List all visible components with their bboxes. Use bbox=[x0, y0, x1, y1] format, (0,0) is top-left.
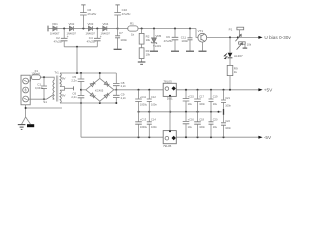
svg-text:R2: R2 bbox=[146, 35, 150, 39]
node junction AC bottom at bridge bbox=[99, 102, 101, 104]
node junction bridge top bbox=[99, 72, 101, 74]
zener VD5 TL431 bbox=[151, 29, 156, 51]
svg-text:+C16: +C16 bbox=[188, 118, 195, 122]
diode VD4 bbox=[103, 26, 118, 31]
transformer Tr1 core bbox=[56, 76, 57, 102]
resistor R1 bbox=[128, 26, 138, 31]
svg-text:47u25v: 47u25v bbox=[87, 40, 96, 44]
svg-text:C14: C14 bbox=[151, 118, 156, 122]
wire center tap bbox=[60, 86, 74, 90]
wire chain seg 4 bbox=[97, 28, 103, 30]
label VD5 bbox=[153, 34, 162, 48]
svg-text:0,047u: 0,047u bbox=[35, 86, 44, 90]
node junction C1 bottom bbox=[43, 98, 45, 100]
label R3 bbox=[146, 49, 151, 57]
svg-text:100mA: 100mA bbox=[31, 72, 40, 76]
svg-text:1000u: 1000u bbox=[140, 102, 148, 106]
label U bias bbox=[264, 35, 291, 40]
svg-text:C5: C5 bbox=[72, 75, 76, 79]
svg-text:2,2n: 2,2n bbox=[71, 79, 77, 83]
fuse F1 bbox=[31, 75, 40, 80]
label DA2 bbox=[163, 144, 172, 148]
svg-text:C18: C18 bbox=[199, 118, 204, 122]
label 9V top bbox=[62, 76, 66, 80]
node junction bridge minus bbox=[80, 89, 82, 91]
node U bias arrow bbox=[258, 36, 262, 39]
svg-text:1N4007: 1N4007 bbox=[86, 31, 96, 35]
transformer Tr1 secondary bottom bbox=[60, 90, 61, 103]
connector X1 mains terminal block bbox=[21, 75, 30, 105]
ground C13 bbox=[186, 50, 194, 52]
wire neutral to switch bbox=[29, 98, 47, 100]
wire 0V rail (rail2) bbox=[139, 111, 222, 113]
svg-text:DA1: DA1 bbox=[167, 96, 173, 100]
label Tr1 bbox=[54, 71, 59, 75]
node junction J9 bbox=[229, 36, 231, 38]
transformer Tr1 secondary top bbox=[60, 73, 61, 87]
svg-text:VD5: VD5 bbox=[155, 34, 161, 38]
node junction C24 bbox=[185, 89, 187, 113]
ground rail2 end bar bbox=[223, 109, 225, 115]
svg-text:+: + bbox=[67, 35, 69, 39]
svg-text:C9: C9 bbox=[121, 93, 125, 97]
capacitor C6a bbox=[78, 95, 85, 137]
diode VD1 bbox=[53, 26, 60, 31]
capacitor C9 bbox=[113, 90, 120, 103]
label VD4 bbox=[101, 22, 111, 36]
label C13 bbox=[181, 35, 189, 43]
svg-text:2,2n: 2,2n bbox=[71, 95, 77, 99]
ground VD5 bbox=[150, 50, 158, 52]
capacitor C6 bbox=[80, 5, 87, 29]
ground C12 bbox=[171, 50, 179, 52]
potentiometer P1 lower element bbox=[237, 42, 246, 50]
label C8 bbox=[121, 81, 127, 88]
node junction J7 bbox=[189, 28, 191, 30]
capacitor C16 bbox=[194, 90, 201, 112]
svg-text:100n: 100n bbox=[199, 102, 205, 106]
capacitor C10 bbox=[114, 5, 121, 29]
label bridge bbox=[95, 88, 104, 92]
diode VD2 bbox=[69, 26, 78, 31]
node rail2 junctions bbox=[138, 111, 220, 113]
svg-text:10u: 10u bbox=[188, 102, 193, 106]
svg-text:100n: 100n bbox=[181, 39, 188, 43]
capacitor C19 bbox=[135, 112, 142, 137]
capacitor C25 bbox=[183, 112, 190, 137]
svg-text:-5V: -5V bbox=[264, 135, 272, 140]
svg-text:C21: C21 bbox=[225, 96, 230, 100]
svg-text:C2: C2 bbox=[56, 36, 60, 40]
wire bottom bus of multiplier bbox=[64, 46, 97, 48]
node rail3 junctions bbox=[138, 136, 225, 138]
node DA pin junction on rail2 bbox=[169, 111, 171, 113]
wire earth fork bbox=[22, 117, 31, 124]
label VT1 bbox=[198, 29, 204, 33]
wire top chain segment 1 bbox=[48, 28, 53, 30]
capacitor C18 bbox=[221, 90, 226, 109]
label C20 bbox=[151, 118, 157, 130]
label C21 bbox=[188, 118, 195, 130]
svg-text:78L05: 78L05 bbox=[163, 79, 172, 83]
capacitor C20 bbox=[147, 112, 152, 137]
node junction J3 bbox=[96, 28, 98, 30]
node junction J6 bbox=[174, 28, 176, 30]
svg-text:10u: 10u bbox=[213, 125, 218, 129]
resistor R3 bbox=[139, 44, 144, 62]
node +5V arrow bbox=[258, 88, 262, 91]
capacitor C15 bbox=[147, 90, 152, 112]
svg-text:VD2: VD2 bbox=[69, 22, 75, 26]
node junction AC top at drop bbox=[76, 72, 78, 74]
svg-text:2,2n: 2,2n bbox=[121, 96, 127, 100]
wire LED to R9 bbox=[229, 58, 231, 66]
capacitor C1 bbox=[41, 77, 47, 99]
node junction C8 bottom bbox=[115, 89, 117, 91]
svg-text:10u: 10u bbox=[188, 125, 193, 129]
svg-text:+: + bbox=[100, 35, 102, 39]
svg-text:P1: P1 bbox=[229, 27, 233, 31]
node junction C1 top bbox=[43, 76, 45, 78]
capacitor C17 bbox=[209, 90, 214, 112]
node junction earth bbox=[25, 107, 27, 109]
label R1 bbox=[130, 21, 135, 36]
svg-text:2,2n: 2,2n bbox=[121, 84, 127, 88]
capacitor C22 bbox=[209, 112, 214, 137]
svg-text:VT1: VT1 bbox=[198, 29, 204, 33]
wire fuse to transformer bbox=[40, 77, 54, 80]
wire DA1 ground pin bbox=[169, 96, 171, 130]
switch S1 bbox=[47, 95, 55, 99]
label S1 bbox=[43, 100, 47, 104]
capacitor C14 bbox=[135, 90, 142, 112]
capacitor C4 bbox=[94, 29, 101, 47]
label VD9 bbox=[234, 54, 243, 58]
bridge rectifier VD6 bbox=[86, 78, 114, 101]
capacitor C8 bbox=[113, 73, 120, 90]
label F1 bbox=[31, 69, 40, 76]
node junction J4 bbox=[117, 28, 119, 30]
resistor R2 bbox=[139, 29, 144, 45]
svg-text:R3: R3 bbox=[146, 49, 150, 53]
ground P1 bbox=[243, 47, 248, 49]
svg-text:C22: C22 bbox=[225, 119, 230, 123]
label 9V bottom bbox=[62, 93, 66, 97]
svg-text:9V: 9V bbox=[62, 93, 66, 97]
ground earth symbol bbox=[18, 125, 26, 130]
svg-text:C1: C1 bbox=[37, 83, 41, 87]
node junction C25 bbox=[185, 136, 187, 138]
label C15 bbox=[151, 95, 157, 107]
node junction AC bottom at column bbox=[80, 102, 82, 104]
label C1 bbox=[35, 83, 44, 90]
capacitor C13 bbox=[188, 29, 193, 51]
svg-text:47u25v: 47u25v bbox=[54, 40, 63, 44]
svg-text:47u25v: 47u25v bbox=[122, 12, 131, 16]
wire bridge left vertex bbox=[81, 89, 86, 91]
svg-text:KC405: KC405 bbox=[95, 88, 104, 92]
node junction J2 bbox=[82, 28, 84, 30]
svg-text:9V: 9V bbox=[62, 76, 66, 80]
label +5V bbox=[264, 88, 273, 93]
label C16 bbox=[188, 95, 195, 107]
svg-text:1k: 1k bbox=[234, 70, 238, 74]
label VD2 bbox=[67, 22, 77, 35]
label P1 bbox=[229, 27, 252, 46]
wire chain seg 3 bbox=[78, 28, 89, 30]
ground chassis bar bbox=[27, 124, 34, 127]
label C17 bbox=[199, 95, 205, 107]
label C18 bbox=[213, 95, 232, 108]
svg-text:AL307: AL307 bbox=[234, 54, 243, 58]
wire R9 to +5V rail bbox=[229, 76, 231, 90]
label C10 bbox=[122, 8, 131, 16]
label C7 bbox=[119, 31, 127, 42]
svg-text:C20: C20 bbox=[213, 118, 218, 122]
node junction J8 bbox=[76, 46, 78, 48]
wire +rail (rail1) bbox=[114, 89, 260, 91]
svg-text:C9: C9 bbox=[166, 35, 170, 39]
wire secondary top AC bbox=[60, 72, 116, 74]
resistor R9 bbox=[227, 65, 233, 75]
label C23 bbox=[213, 118, 232, 131]
svg-text:TL431: TL431 bbox=[153, 44, 161, 48]
svg-text:C17: C17 bbox=[199, 95, 204, 99]
label C6 bbox=[87, 8, 96, 16]
svg-text:10k: 10k bbox=[247, 43, 252, 47]
svg-text:1N4007: 1N4007 bbox=[50, 31, 60, 35]
svg-text:+5V: +5V bbox=[264, 88, 273, 93]
LED VD9 bbox=[224, 53, 232, 59]
ground R3 bbox=[138, 62, 146, 64]
wire -rail (rail3) bbox=[81, 136, 260, 138]
svg-text:U bias 0-30v: U bias 0-30v bbox=[264, 35, 291, 40]
capacitor C7 bbox=[115, 29, 120, 49]
svg-text:Tr1: Tr1 bbox=[54, 71, 59, 75]
svg-text:100n: 100n bbox=[225, 126, 231, 130]
wire LED column top bbox=[229, 37, 231, 52]
label R2 bbox=[146, 35, 151, 43]
label R9 bbox=[234, 66, 238, 74]
label C5 bbox=[71, 75, 77, 82]
svg-text:C19: C19 bbox=[213, 95, 218, 99]
capacitor C24 bbox=[183, 90, 190, 112]
wire secondary bottom AC bbox=[60, 102, 116, 104]
label DA1 bbox=[163, 79, 173, 100]
transistor VT1 bbox=[198, 33, 207, 51]
svg-text:C7: C7 bbox=[119, 31, 123, 35]
svg-text:C10: C10 bbox=[122, 8, 128, 12]
svg-text:+C13: +C13 bbox=[140, 118, 147, 122]
svg-text:C4: C4 bbox=[89, 36, 93, 40]
label C4 bbox=[87, 35, 102, 44]
node junction J1 bbox=[63, 28, 65, 30]
transformer Tr1 primary bbox=[53, 80, 54, 99]
svg-text:C8: C8 bbox=[121, 81, 125, 85]
label VD3 bbox=[86, 22, 96, 35]
label C12 bbox=[164, 35, 173, 43]
svg-text:100n: 100n bbox=[199, 125, 205, 129]
node junction R2 top bbox=[141, 28, 143, 30]
wire chain seg 6 bbox=[138, 28, 196, 30]
regulator DA2 7905 bbox=[163, 130, 176, 144]
svg-text:+C15: +C15 bbox=[188, 95, 195, 99]
label -5V bbox=[264, 135, 272, 140]
label VD1 bbox=[50, 22, 60, 35]
capacitor C12 bbox=[172, 29, 179, 51]
svg-text:S1: S1 bbox=[43, 100, 47, 104]
svg-text:C6: C6 bbox=[87, 8, 91, 12]
wire bridge bottom stub bbox=[99, 101, 101, 103]
wire drop to AC top bbox=[76, 47, 78, 73]
node junction AC top at C5 column bbox=[80, 72, 82, 74]
label C2 bbox=[54, 35, 69, 44]
svg-text:100n: 100n bbox=[151, 102, 157, 106]
wire chain seg 2 bbox=[60, 28, 69, 30]
label C6a bbox=[71, 92, 77, 99]
svg-text:79L05: 79L05 bbox=[163, 144, 172, 148]
svg-text:+C11: +C11 bbox=[140, 95, 147, 99]
svg-text:47u25v: 47u25v bbox=[87, 12, 96, 16]
node junction C9 bottom bbox=[115, 102, 117, 104]
capacitor C23 bbox=[221, 115, 226, 137]
svg-text:100n: 100n bbox=[151, 125, 157, 129]
svg-text:10k: 10k bbox=[146, 38, 151, 42]
svg-text:1k: 1k bbox=[131, 32, 135, 36]
wire bias output bbox=[207, 36, 260, 38]
svg-text:C12: C12 bbox=[151, 95, 156, 99]
svg-text:VD3: VD3 bbox=[88, 22, 94, 26]
label C9 bbox=[121, 93, 127, 100]
diode VD3 bbox=[89, 26, 98, 31]
node junction J10 bbox=[237, 36, 239, 38]
wire bridge top stub bbox=[99, 73, 101, 78]
capacitor C21 bbox=[194, 112, 201, 137]
capacitor C5 bbox=[78, 73, 85, 95]
wire corner to VT1 base bbox=[196, 29, 198, 38]
svg-text:1000u: 1000u bbox=[140, 125, 148, 129]
node junction J5 bbox=[153, 28, 155, 30]
ground VT1 bbox=[199, 50, 207, 52]
svg-text:10u: 10u bbox=[213, 102, 218, 106]
label C22 bbox=[199, 118, 205, 130]
svg-text:100n: 100n bbox=[225, 103, 231, 107]
wire live to fuse bbox=[29, 77, 32, 81]
svg-text:10k: 10k bbox=[146, 53, 151, 57]
regulator DA1 7805 bbox=[163, 83, 176, 97]
svg-text:VD4: VD4 bbox=[103, 22, 109, 26]
wire chain seg 5 bbox=[118, 28, 128, 30]
svg-text:VD1: VD1 bbox=[52, 22, 58, 26]
svg-text:C6: C6 bbox=[72, 92, 76, 96]
label C14 bbox=[140, 95, 148, 107]
capacitor C2 bbox=[61, 29, 68, 47]
label C19 bbox=[140, 118, 148, 130]
node rail1 junctions bbox=[138, 89, 232, 91]
ground C7 bbox=[114, 48, 122, 50]
node -5V arrow bbox=[258, 136, 262, 139]
svg-text:47u25v: 47u25v bbox=[164, 39, 173, 43]
svg-text:1N4007: 1N4007 bbox=[101, 31, 111, 35]
svg-text:100n: 100n bbox=[120, 38, 127, 42]
potentiometer P1 upper element bbox=[235, 27, 243, 41]
node bias input terminal bbox=[47, 26, 49, 32]
svg-text:R1: R1 bbox=[130, 21, 134, 25]
wire earth from block bbox=[26, 105, 62, 117]
